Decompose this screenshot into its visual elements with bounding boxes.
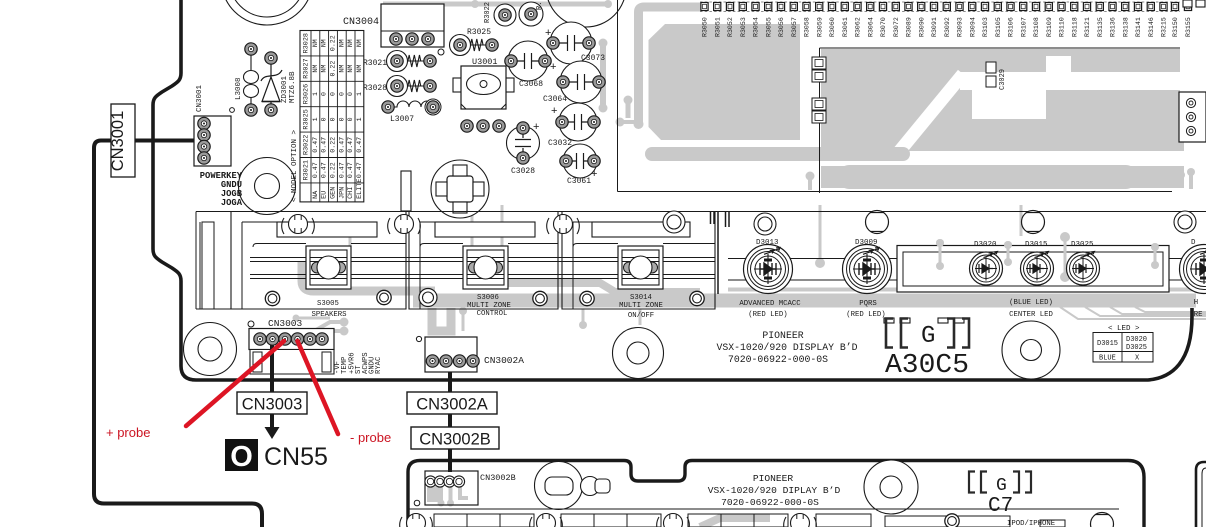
svg-text:0.22: 0.22 bbox=[330, 162, 337, 178]
svg-text:R3025: R3025 bbox=[303, 109, 311, 129]
svg-text:7020-06922-000-0S: 7020-06922-000-0S bbox=[728, 354, 828, 365]
svg-text:+ probe: + probe bbox=[106, 425, 150, 440]
svg-text:C3068: C3068 bbox=[519, 80, 543, 89]
svg-text:0: 0 bbox=[321, 117, 328, 121]
svg-text:SPEAKERS: SPEAKERS bbox=[311, 311, 347, 319]
svg-text:ON/OFF: ON/OFF bbox=[628, 312, 654, 320]
blue LED bar bbox=[897, 246, 1169, 293]
svg-text:R3070: R3070 bbox=[880, 17, 887, 37]
svg-text:R3141: R3141 bbox=[1135, 17, 1142, 37]
svg-text:R3056: R3056 bbox=[778, 17, 785, 37]
svg-text:CONTROL: CONTROL bbox=[477, 310, 508, 318]
svg-text:0.47: 0.47 bbox=[356, 162, 363, 178]
inductor L3007 bbox=[382, 99, 441, 124]
traces near CN3003 bbox=[293, 307, 641, 336]
board outline bottom bbox=[408, 461, 1144, 527]
svg-text:0.47: 0.47 bbox=[312, 137, 319, 153]
svg-text:NM: NM bbox=[312, 39, 319, 47]
svg-text:1: 1 bbox=[356, 117, 363, 121]
svg-text:D3015: D3015 bbox=[1097, 340, 1118, 348]
mounting hole top mid bbox=[546, 0, 626, 27]
adjacent board right bbox=[1196, 462, 1206, 527]
svg-text:R3093: R3093 bbox=[957, 17, 964, 37]
svg-text:JOGA: JOGA bbox=[221, 198, 243, 208]
svg-text:CN3003: CN3003 bbox=[242, 396, 303, 414]
svg-text:ELITE: ELITE bbox=[356, 178, 364, 198]
slider S3014 bbox=[618, 246, 663, 289]
svg-text:RYAC: RYAC bbox=[375, 356, 383, 374]
screw above D3009 bbox=[866, 211, 889, 234]
svg-text:D3025: D3025 bbox=[1071, 241, 1094, 249]
svg-text:NM: NM bbox=[347, 65, 354, 73]
mounting hole right bbox=[1002, 321, 1060, 379]
board outline main bbox=[153, 0, 1192, 380]
resistors R3150 R3155 bbox=[1171, 3, 1192, 38]
svg-text:R3062: R3062 bbox=[855, 17, 862, 37]
board title bottom bbox=[708, 473, 841, 508]
svg-text:CN3004: CN3004 bbox=[343, 17, 379, 28]
svg-text:0.47: 0.47 bbox=[321, 137, 328, 153]
arrow down bbox=[270, 414, 274, 428]
switch S3005 section bbox=[231, 212, 406, 310]
svg-text:A30C5: A30C5 bbox=[885, 351, 969, 381]
svg-text:R3103: R3103 bbox=[982, 17, 989, 37]
svg-text:R3053: R3053 bbox=[740, 17, 747, 37]
svg-text:7020-06922-000-0S: 7020-06922-000-0S bbox=[721, 497, 819, 508]
capacitor C3028 bbox=[507, 121, 540, 176]
svg-text:ADVANCED MCACC: ADVANCED MCACC bbox=[739, 300, 801, 308]
bracket rect left bbox=[202, 222, 214, 309]
board title main bbox=[716, 330, 857, 365]
svg-text:R3022: R3022 bbox=[303, 135, 311, 155]
bottom row footprints bbox=[408, 509, 1119, 527]
svg-text:R3028: R3028 bbox=[303, 33, 311, 53]
capacitor C3061 bbox=[560, 144, 600, 186]
trace vias on LED bar bbox=[936, 232, 1159, 282]
svg-text:R3138: R3138 bbox=[1123, 17, 1130, 37]
svg-text:H: H bbox=[1194, 299, 1198, 307]
svg-text:CN3002B: CN3002B bbox=[419, 431, 491, 449]
via hole bbox=[438, 49, 444, 55]
svg-text:S3005: S3005 bbox=[317, 300, 339, 308]
svg-text:R3105: R3105 bbox=[995, 17, 1002, 37]
svg-text:0: 0 bbox=[347, 92, 354, 96]
svg-text:C3064: C3064 bbox=[543, 95, 567, 104]
svg-text:PIONEER: PIONEER bbox=[753, 473, 794, 484]
svg-text:< LED >: < LED > bbox=[1108, 325, 1140, 333]
svg-text:+: + bbox=[545, 27, 551, 39]
switch band frame bbox=[196, 212, 1206, 310]
svg-text:(RED LED): (RED LED) bbox=[748, 311, 787, 319]
slide rails bbox=[250, 258, 1196, 281]
svg-text:1: 1 bbox=[312, 92, 319, 96]
svg-text:D3015: D3015 bbox=[1025, 241, 1048, 249]
resistor R3028 bbox=[363, 76, 436, 97]
switch S3014 section bbox=[562, 212, 715, 310]
plane border lines bbox=[618, 0, 1181, 193]
svg-text:R3135: R3135 bbox=[1097, 17, 1104, 37]
svg-text:IPOD/IPHONE: IPOD/IPHONE bbox=[1007, 520, 1055, 527]
IC U3001 bbox=[453, 57, 514, 109]
mounting hole bottom board bbox=[864, 460, 918, 514]
svg-text:R3107: R3107 bbox=[1021, 17, 1028, 37]
slot lines bbox=[253, 244, 715, 248]
mounting hole left mid bbox=[239, 158, 296, 215]
capacitor C3073 bbox=[545, 22, 605, 64]
svg-text:CENTER LED: CENTER LED bbox=[1009, 311, 1053, 319]
capacitor footprints in channel bbox=[812, 57, 826, 123]
mounting hole left bbox=[184, 323, 237, 376]
svg-text:NA: NA bbox=[312, 190, 320, 199]
LED D3009 bbox=[843, 239, 892, 294]
pads row below U3001 bbox=[461, 120, 505, 132]
svg-text:NM: NM bbox=[321, 39, 328, 47]
connector CN3003 bbox=[248, 318, 334, 374]
screw mid LED bar bbox=[1022, 211, 1045, 234]
marking [[ G ]] A30C5 bbox=[885, 319, 969, 382]
wire CN3003 callout bbox=[270, 345, 274, 392]
mounting hole top left bbox=[221, 0, 313, 25]
ring above D3013 bbox=[754, 213, 776, 235]
svg-text:C3029: C3029 bbox=[999, 69, 1007, 90]
svg-text:0.22: 0.22 bbox=[330, 35, 337, 51]
svg-text:0.47: 0.47 bbox=[356, 137, 363, 153]
slider S3005 bbox=[306, 246, 351, 289]
svg-text:+: + bbox=[550, 61, 556, 73]
LED D3020 bbox=[970, 241, 1003, 285]
svg-text:R3108: R3108 bbox=[1033, 17, 1040, 37]
svg-text:R3094: R3094 bbox=[970, 17, 977, 37]
svg-text:CHI: CHI bbox=[347, 187, 355, 199]
svg-text:0: 0 bbox=[321, 92, 328, 96]
svg-text:(RE: (RE bbox=[1189, 311, 1202, 319]
svg-text:MULTI ZONE: MULTI ZONE bbox=[467, 302, 511, 310]
svg-text:R3028: R3028 bbox=[363, 84, 387, 93]
svg-text:R3090: R3090 bbox=[919, 17, 926, 37]
svg-text:R3021: R3021 bbox=[303, 160, 311, 180]
screw holes band bbox=[265, 289, 704, 307]
svg-text:+: + bbox=[591, 168, 597, 180]
svg-text:R3146: R3146 bbox=[1148, 17, 1155, 37]
slider S3006 bbox=[463, 246, 508, 289]
svg-text:S3006: S3006 bbox=[477, 294, 499, 302]
svg-text:0: 0 bbox=[338, 92, 345, 96]
model option table bbox=[291, 31, 364, 203]
svg-text:< MODEL OPTION >: < MODEL OPTION > bbox=[291, 129, 299, 202]
capacitor C3068 bbox=[505, 41, 551, 89]
svg-text:R3150: R3150 bbox=[1172, 17, 1179, 37]
marker O CN55 bbox=[225, 439, 328, 473]
svg-text:EU: EU bbox=[321, 191, 329, 199]
svg-text:R3050: R3050 bbox=[702, 17, 709, 37]
svg-text:L3007: L3007 bbox=[390, 115, 414, 124]
resistor R3025 bbox=[450, 28, 499, 56]
labels S3005 SPEAKERS bbox=[311, 300, 347, 319]
svg-text:R3026: R3026 bbox=[303, 84, 311, 104]
svg-text:C3061: C3061 bbox=[567, 177, 591, 186]
marking [[ G ]] C7 bbox=[969, 472, 1031, 519]
svg-text:R3057: R3057 bbox=[791, 17, 798, 37]
svg-text:MTZ6.8B: MTZ6.8B bbox=[289, 71, 297, 103]
svg-text:R3091: R3091 bbox=[931, 17, 938, 37]
probe lead - bbox=[298, 341, 339, 434]
section ticks bbox=[711, 212, 730, 295]
LED D3015 bbox=[1021, 241, 1054, 285]
hole with keyway bbox=[535, 462, 583, 510]
svg-text:- probe: - probe bbox=[350, 430, 391, 445]
svg-text:R3061: R3061 bbox=[842, 17, 849, 37]
svg-text:BLUE: BLUE bbox=[1099, 355, 1116, 363]
svg-text:+: + bbox=[533, 121, 539, 133]
callout CN3002A bbox=[407, 392, 497, 414]
svg-text:L3008: L3008 bbox=[235, 77, 243, 100]
gray silk bar bbox=[413, 288, 1196, 308]
svg-text:R3022: R3022 bbox=[484, 2, 492, 23]
connector CN3004 bbox=[343, 4, 444, 47]
wire to CN3001 bbox=[94, 141, 262, 527]
svg-text:R3089: R3089 bbox=[906, 17, 913, 37]
svg-text:D3025: D3025 bbox=[1126, 344, 1147, 352]
svg-text:R3064: R3064 bbox=[868, 17, 875, 37]
svg-text:S3014: S3014 bbox=[630, 294, 653, 302]
svg-text:GEN: GEN bbox=[330, 187, 338, 199]
switch S3006 section bbox=[409, 212, 558, 310]
svg-text:0.47: 0.47 bbox=[338, 137, 345, 153]
svg-text:0: 0 bbox=[347, 117, 354, 121]
svg-text:PIONEER: PIONEER bbox=[762, 330, 803, 341]
connector right edge bbox=[1179, 0, 1206, 142]
connector CN3001 bbox=[194, 84, 234, 166]
svg-text:D3020: D3020 bbox=[1126, 336, 1147, 344]
svg-text:R3110: R3110 bbox=[1059, 17, 1066, 37]
svg-text:R3059: R3059 bbox=[817, 17, 824, 37]
pin labels POWERKEY GNDU JOGB JOGA bbox=[200, 171, 243, 208]
svg-text:C3032: C3032 bbox=[548, 139, 572, 148]
svg-text:NM: NM bbox=[338, 39, 345, 47]
svg-text:R3121: R3121 bbox=[1084, 17, 1091, 37]
svg-text:VSX-1020/920 DIPLAY B’D: VSX-1020/920 DIPLAY B’D bbox=[708, 485, 841, 496]
traces CN3002B bbox=[427, 478, 770, 527]
svg-text:JPN: JPN bbox=[338, 187, 346, 199]
svg-text:R3054: R3054 bbox=[753, 17, 760, 37]
label CN3001 bbox=[109, 104, 135, 177]
svg-text:R3060: R3060 bbox=[829, 17, 836, 37]
svg-text:VSX-1020/920 DISPLAY B’D: VSX-1020/920 DISPLAY B’D bbox=[716, 342, 857, 353]
corner traces bbox=[1060, 307, 1206, 319]
svg-text:PQRS: PQRS bbox=[859, 300, 877, 308]
svg-text:CN55: CN55 bbox=[264, 443, 328, 471]
svg-text:CN3001: CN3001 bbox=[109, 111, 127, 172]
svg-text:ZD3001: ZD3001 bbox=[281, 75, 289, 103]
LED right edge bbox=[1180, 239, 1206, 294]
svg-text:C7: C7 bbox=[988, 495, 1013, 518]
capacitor C3032 bbox=[548, 103, 600, 148]
labels S3006 MULTI ZONE CONTROL bbox=[467, 294, 511, 318]
svg-text:CN3001: CN3001 bbox=[196, 84, 204, 112]
svg-text:0: 0 bbox=[330, 92, 337, 96]
svg-text:R3052: R3052 bbox=[727, 17, 734, 37]
svg-text:NM: NM bbox=[356, 39, 363, 47]
svg-text:0.22: 0.22 bbox=[330, 61, 337, 77]
svg-text:CN3002B: CN3002B bbox=[480, 473, 516, 483]
connector CN3002A bbox=[416, 336, 524, 372]
labels S3014 MULTI ZONE ON/OFF bbox=[619, 294, 663, 320]
svg-text:CN3002A: CN3002A bbox=[416, 396, 488, 414]
mounting hole mid bbox=[613, 328, 664, 379]
svg-text:R3025: R3025 bbox=[467, 28, 491, 37]
svg-text:NM: NM bbox=[321, 65, 328, 73]
capacitor C3064 bbox=[543, 61, 605, 104]
resistor row R3050-R3215 bbox=[701, 3, 1168, 38]
svg-text:1: 1 bbox=[312, 117, 319, 121]
tab hole bbox=[581, 477, 611, 496]
svg-text:NM: NM bbox=[347, 39, 354, 47]
svg-text:R3027: R3027 bbox=[303, 58, 311, 78]
ring right bbox=[1174, 211, 1196, 233]
svg-text:G: G bbox=[996, 476, 1007, 496]
svg-text:+: + bbox=[551, 105, 557, 117]
pcb traces gray bbox=[302, 0, 1159, 292]
svg-text:MULTI ZONE: MULTI ZONE bbox=[619, 302, 663, 310]
svg-text:R3136: R3136 bbox=[1110, 17, 1117, 37]
svg-text:R3092: R3092 bbox=[944, 17, 951, 37]
svg-text:0.22: 0.22 bbox=[330, 137, 337, 153]
callout CN3003 bbox=[237, 392, 307, 414]
svg-text:D3020: D3020 bbox=[974, 241, 997, 249]
probe lead + bbox=[186, 341, 284, 426]
svg-text:0.47: 0.47 bbox=[312, 162, 319, 178]
svg-text:O: O bbox=[230, 441, 253, 473]
svg-text:(RED LED): (RED LED) bbox=[846, 311, 885, 319]
svg-text:NM: NM bbox=[312, 65, 319, 73]
zener ZD3001 bbox=[261, 64, 282, 110]
svg-text:G: G bbox=[921, 323, 935, 350]
LED D3013 bbox=[744, 239, 793, 294]
svg-text:NM: NM bbox=[338, 65, 345, 73]
LED D3025 bbox=[1067, 241, 1100, 285]
svg-text:R3215: R3215 bbox=[1161, 17, 1168, 37]
resistor R3022 pads bbox=[484, 2, 544, 26]
svg-text:R3072: R3072 bbox=[893, 17, 900, 37]
svg-text:R.: R. bbox=[536, 2, 544, 10]
svg-text:R3155: R3155 bbox=[1185, 17, 1192, 37]
svg-text:R3021: R3021 bbox=[363, 59, 387, 68]
callout CN3002B bbox=[411, 427, 499, 449]
footprints below bar bbox=[884, 318, 964, 323]
svg-text:0.47: 0.47 bbox=[321, 162, 328, 178]
svg-text:(BLUE LED): (BLUE LED) bbox=[1009, 299, 1053, 307]
svg-text:R3106: R3106 bbox=[1008, 17, 1015, 37]
LED option table bbox=[1093, 325, 1153, 363]
capacitor C3029 bbox=[986, 62, 1007, 90]
resistor R3021 bbox=[363, 51, 436, 72]
svg-text:NM: NM bbox=[356, 65, 363, 73]
test point rect bbox=[401, 171, 411, 211]
svg-text:CN3002A: CN3002A bbox=[484, 355, 524, 366]
svg-text:R3109: R3109 bbox=[1046, 17, 1053, 37]
wire CN3002 callout bbox=[448, 372, 452, 472]
copper ground plane bbox=[616, 7, 1206, 190]
svg-text:R3058: R3058 bbox=[804, 17, 811, 37]
svg-text:R3051: R3051 bbox=[715, 17, 722, 37]
svg-text:0: 0 bbox=[330, 117, 337, 121]
svg-text:CN3003: CN3003 bbox=[268, 318, 303, 329]
svg-text:R3055: R3055 bbox=[766, 17, 773, 37]
svg-text:0: 0 bbox=[338, 117, 345, 121]
svg-text:C3028: C3028 bbox=[511, 167, 535, 176]
svg-text:R3118: R3118 bbox=[1072, 17, 1079, 37]
svg-text:0.47: 0.47 bbox=[347, 137, 354, 153]
svg-text:1: 1 bbox=[356, 92, 363, 96]
svg-text:0.47: 0.47 bbox=[347, 162, 354, 178]
connector CN3002B board bbox=[414, 471, 516, 506]
LED captions bbox=[739, 299, 1202, 319]
washer ring bbox=[663, 211, 685, 233]
resonator X3001 bbox=[431, 160, 489, 218]
CN3003 pin names bbox=[334, 352, 383, 374]
svg-text:0.47: 0.47 bbox=[338, 162, 345, 178]
inductor L3008 bbox=[244, 55, 259, 106]
